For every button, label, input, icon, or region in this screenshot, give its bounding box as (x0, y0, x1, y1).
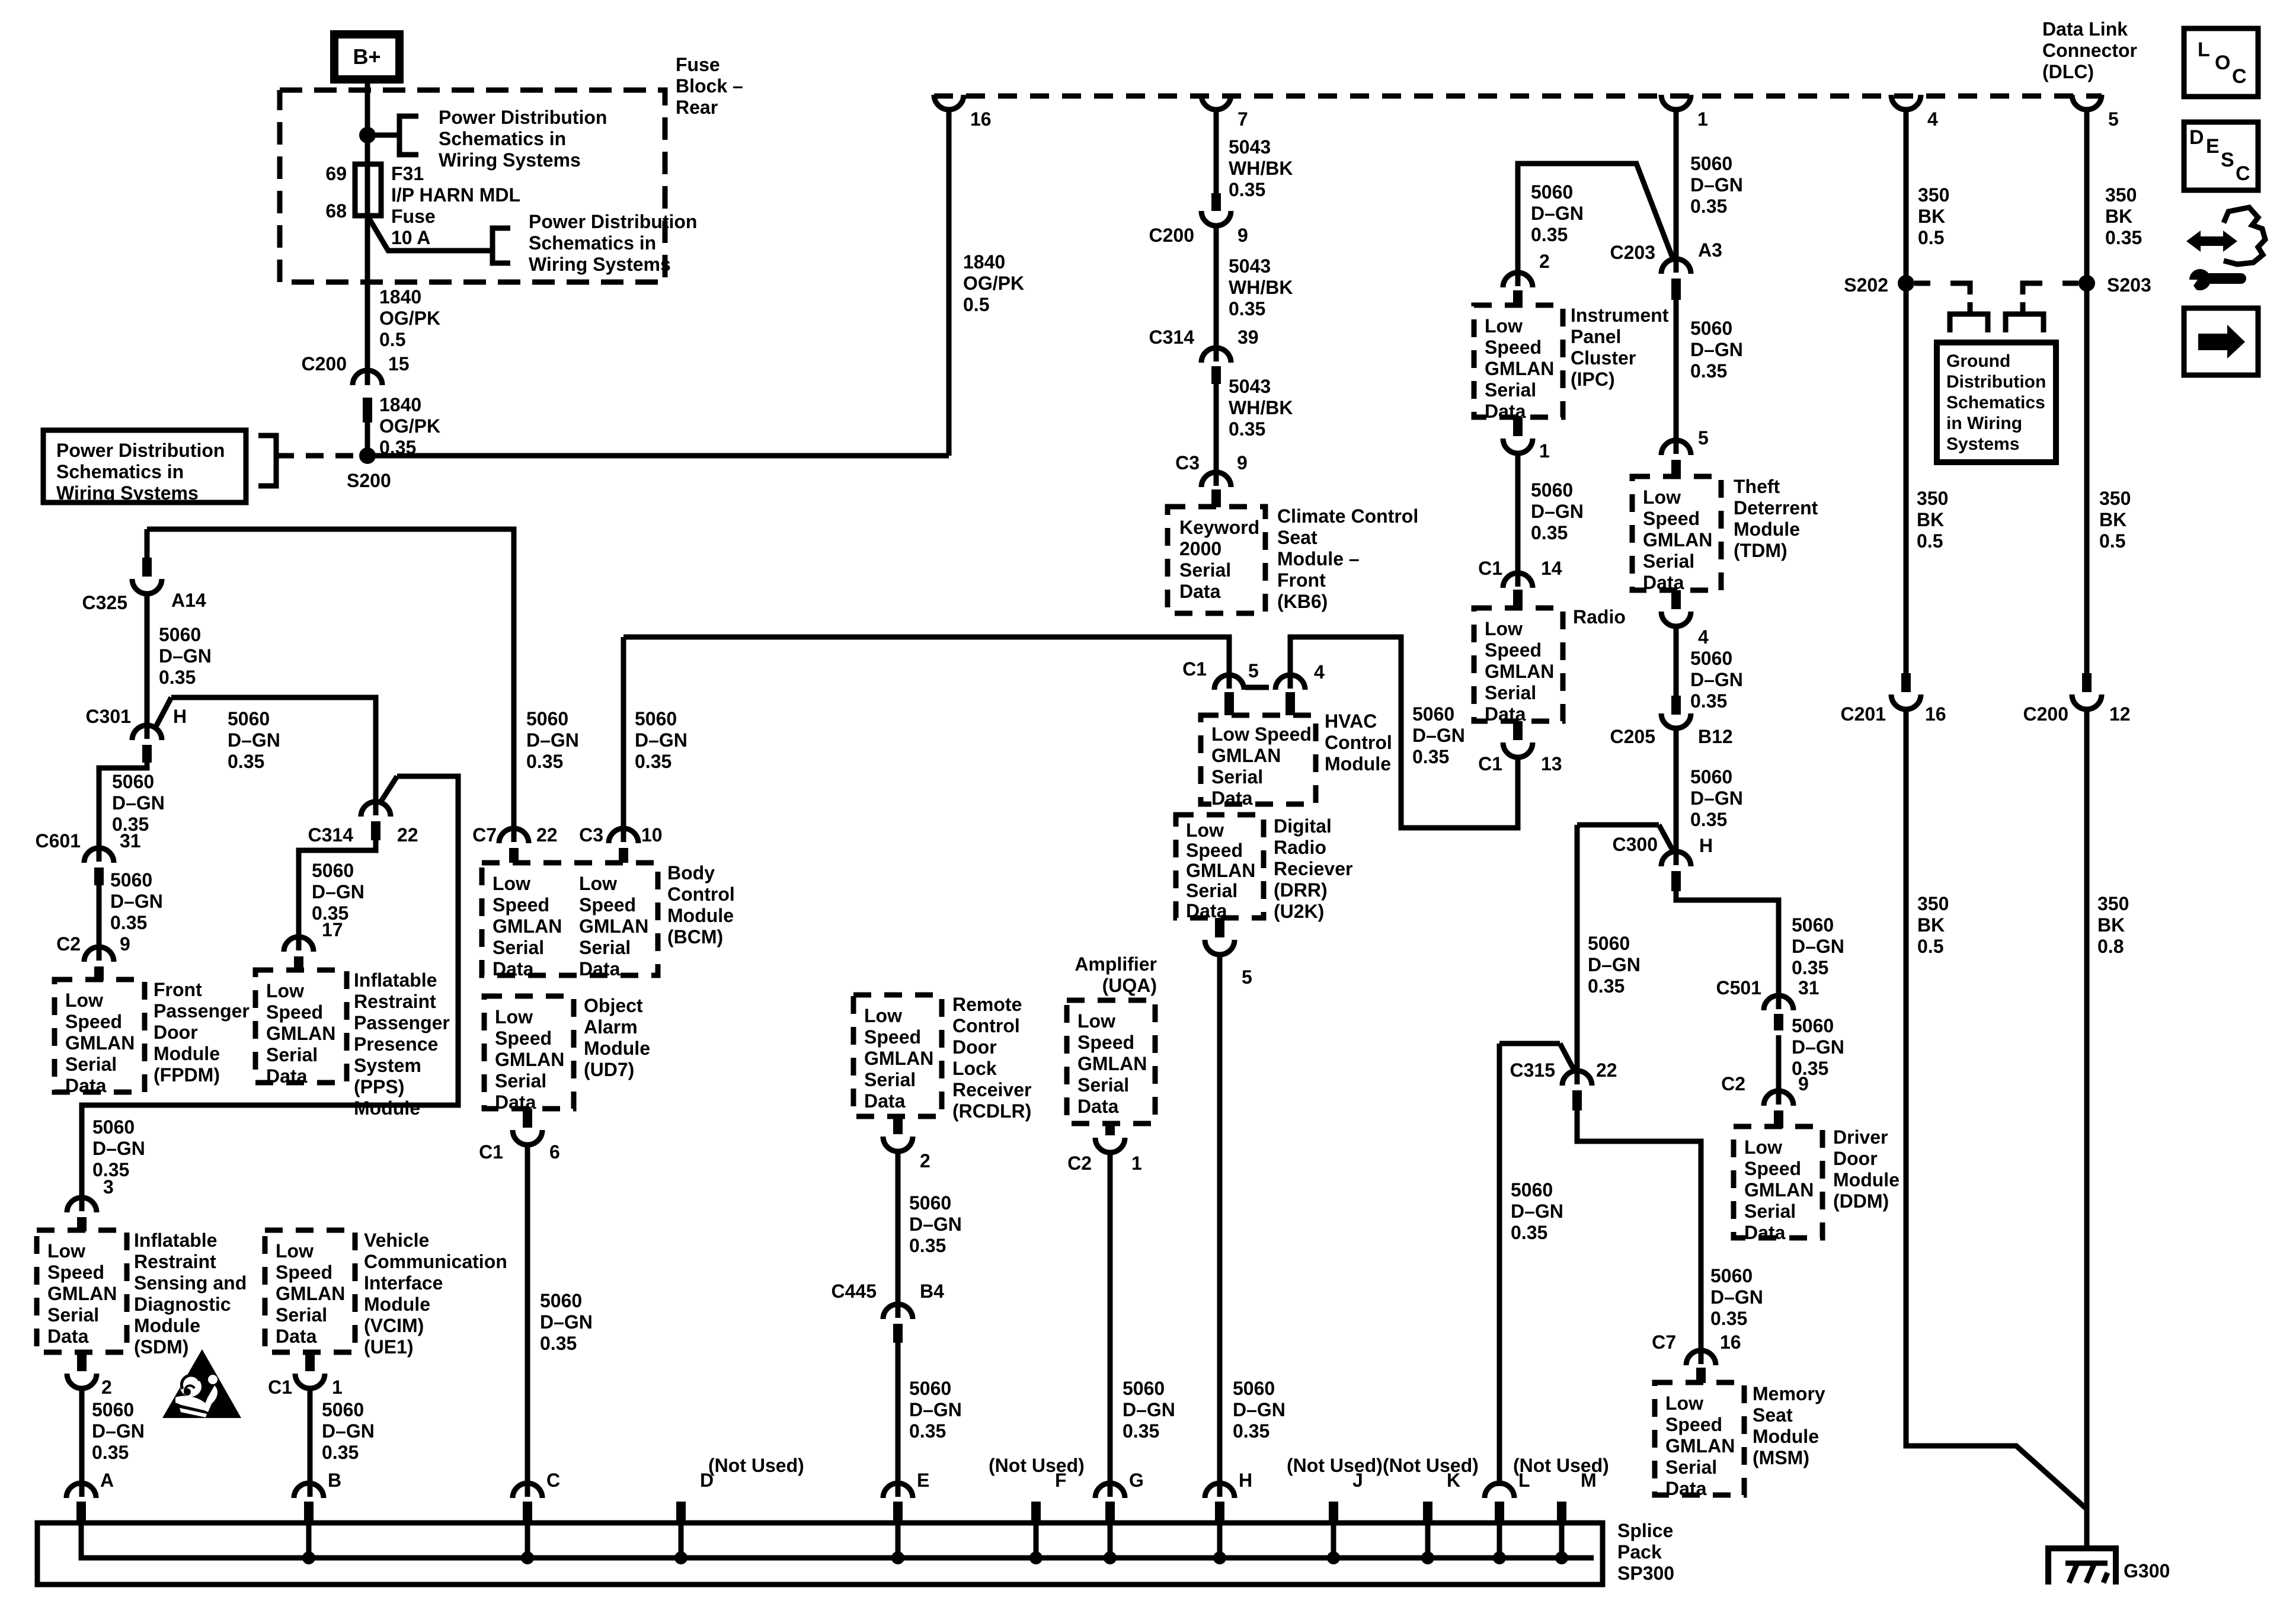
svg-text:(UD7): (UD7) (584, 1059, 634, 1080)
module passenger presence serial data (255, 970, 347, 1083)
svg-text:0.5: 0.5 (1917, 936, 1943, 957)
wire C601 to FPDM C2-9 (97, 885, 102, 961)
svg-text:Keyword: Keyword (1179, 517, 1259, 538)
svg-text:OG/PK: OG/PK (379, 415, 440, 437)
svg-text:Front: Front (154, 979, 202, 1000)
svg-text:Power Distribution: Power Distribution (529, 211, 697, 232)
svg-text:Schematics in: Schematics in (529, 232, 656, 254)
svg-text:in Wiring: in Wiring (1946, 414, 2022, 433)
junction dot fuse feed (359, 127, 376, 143)
svg-text:Data: Data (1211, 788, 1253, 809)
wire C501-31 to C2-9 DDM (1776, 1035, 1782, 1105)
svg-text:Reciever: Reciever (1274, 858, 1352, 879)
svg-text:Serial: Serial (493, 937, 544, 958)
svg-text:C1: C1 (268, 1377, 292, 1398)
svg-text:Vehicle: Vehicle (364, 1230, 429, 1251)
IPC pin 2 male pin (1513, 290, 1523, 305)
svg-text:5060: 5060 (909, 1192, 951, 1214)
svg-text:WH/BK: WH/BK (1229, 397, 1293, 418)
svg-text:O: O (2215, 52, 2230, 74)
legend icon pointing hand with arrows and wrench (2186, 207, 2265, 290)
svg-text:D–GN: D–GN (1690, 788, 1743, 809)
SDM pin 2 female arc (67, 1374, 97, 1388)
svg-text:5060: 5060 (312, 860, 354, 881)
svg-text:Serial: Serial (1485, 682, 1536, 703)
HVAC C1 pin 5 male pin (1224, 692, 1234, 715)
svg-text:2: 2 (101, 1377, 112, 1398)
bracket to ground distribution (right) (2006, 314, 2044, 332)
svg-text:68: 68 (325, 200, 347, 222)
wire S200 to DLC pin 16 drop (367, 453, 949, 459)
svg-text:Theft: Theft (1734, 476, 1780, 497)
svg-text:14: 14 (1541, 558, 1562, 579)
svg-text:Speed: Speed (1744, 1158, 1801, 1179)
connector C315 pin 22 female arc (1562, 1071, 1592, 1086)
svg-text:5060: 5060 (1233, 1378, 1275, 1399)
IPC pin 1 male pin (1513, 417, 1523, 436)
splice M male pin (1557, 1502, 1566, 1524)
svg-text:16: 16 (970, 108, 992, 130)
svg-text:Memory: Memory (1753, 1383, 1825, 1404)
wire B+ to fuse F31 (365, 79, 370, 164)
junction splice M (1555, 1551, 1568, 1564)
wire splice C to bus (525, 1524, 530, 1558)
svg-text:GMLAN: GMLAN (1643, 529, 1712, 550)
svg-text:(Not Used): (Not Used) (1287, 1455, 1383, 1476)
svg-text:2: 2 (1539, 251, 1550, 272)
svg-text:C7: C7 (472, 824, 497, 846)
svg-text:12: 12 (2109, 703, 2131, 725)
wire C315 splice horizontal (1499, 1041, 1560, 1046)
svg-text:Speed: Speed (266, 1001, 323, 1023)
wire splice D to bus (679, 1524, 684, 1558)
airbag SRS warning triangle (162, 1349, 241, 1418)
svg-text:1: 1 (1539, 440, 1550, 462)
svg-text:BK: BK (1918, 206, 1945, 227)
svg-text:5: 5 (1248, 660, 1259, 681)
svg-text:D–GN: D–GN (1690, 174, 1743, 196)
svg-text:C301: C301 (86, 706, 132, 727)
connector C601 pin 31 female arc (84, 848, 114, 863)
svg-text:Data: Data (47, 1326, 89, 1347)
svg-text:Door: Door (952, 1036, 997, 1058)
svg-text:(FPDM): (FPDM) (154, 1064, 220, 1086)
svg-text:Alarm: Alarm (584, 1016, 638, 1038)
module digital radio receiver serial data (1176, 815, 1264, 918)
svg-text:Seat: Seat (1753, 1404, 1793, 1426)
svg-text:0.5: 0.5 (963, 294, 989, 315)
battery B+ symbol (334, 34, 399, 79)
svg-text:5060: 5060 (1690, 648, 1732, 669)
svg-text:2: 2 (920, 1150, 930, 1172)
svg-text:D–GN: D–GN (312, 881, 364, 902)
svg-text:Module: Module (584, 1038, 650, 1059)
svg-text:D–GN: D–GN (1690, 339, 1743, 360)
svg-text:G300: G300 (2124, 1560, 2170, 1582)
splice A female arc (66, 1483, 96, 1498)
svg-text:0.5: 0.5 (1918, 227, 1944, 248)
RCDLR pin 2 male pin (893, 1116, 903, 1134)
module VCIM serial data (265, 1230, 355, 1352)
svg-text:(Not Used): (Not Used) (1513, 1455, 1609, 1476)
splice L female arc (1485, 1483, 1514, 1498)
svg-text:5060: 5060 (540, 1290, 582, 1311)
svg-text:C3: C3 (579, 824, 603, 846)
svg-text:D–GN: D–GN (526, 729, 579, 751)
wire DRR-5 to splice pack H (1217, 955, 1223, 1497)
svg-text:Low: Low (47, 1240, 85, 1262)
wire UD7 C1-6 to splice pack C (525, 1145, 530, 1497)
box power distribution schematics in wiring systems (43, 430, 246, 502)
svg-text:S200: S200 (347, 470, 391, 491)
svg-text:D–GN: D–GN (1531, 501, 1584, 522)
svg-text:5060: 5060 (228, 708, 270, 729)
junction splice F (1029, 1551, 1043, 1564)
IPC pin 1 female arc (1503, 438, 1533, 453)
splice F male pin (1031, 1502, 1041, 1524)
svg-text:GMLAN: GMLAN (1186, 860, 1255, 881)
amplifier C2 pin 1 male pin (1105, 1124, 1115, 1135)
splice S200 (359, 447, 376, 464)
svg-text:A: A (100, 1470, 114, 1491)
svg-text:(BCM): (BCM) (667, 926, 723, 948)
svg-text:Speed: Speed (864, 1026, 921, 1048)
svg-text:Climate Control: Climate Control (1277, 505, 1418, 527)
svg-text:(RCDLR): (RCDLR) (952, 1100, 1031, 1122)
svg-text:Communication: Communication (364, 1251, 507, 1272)
svg-text:1840: 1840 (379, 394, 421, 415)
svg-text:B: B (328, 1470, 341, 1491)
svg-text:5060: 5060 (1792, 1015, 1834, 1036)
wire C314-39 to C3-9 (1214, 384, 1219, 486)
svg-text:5043: 5043 (1229, 376, 1271, 397)
wire splice H to bus (1217, 1524, 1223, 1558)
svg-text:Door: Door (1833, 1148, 1878, 1169)
svg-text:69: 69 (325, 163, 347, 184)
svg-text:Data: Data (493, 958, 534, 980)
wire C315-22 to MSM C7-16 (1577, 1110, 1701, 1364)
svg-text:Serial: Serial (1077, 1074, 1129, 1096)
callout bracket power distribution (top) (399, 116, 418, 155)
module SDM serial data (37, 1230, 127, 1352)
DLC pin 1 female arc (1661, 95, 1691, 110)
svg-text:Serial: Serial (266, 1044, 318, 1065)
splice G male pin (1105, 1502, 1115, 1524)
MSM C7 pin 16 female arc (1686, 1350, 1716, 1365)
wire C325 net to BCM C7-22 (147, 529, 514, 842)
splice S203 (2078, 275, 2095, 292)
junction splice B (302, 1551, 315, 1564)
svg-text:S: S (2221, 149, 2234, 171)
module memory seat serial data (1655, 1382, 1744, 1495)
svg-text:5060: 5060 (1511, 1179, 1553, 1201)
wire splice B to bus (306, 1524, 312, 1558)
svg-text:Speed: Speed (495, 1028, 552, 1049)
wire DLC pin 7 down (1214, 110, 1219, 194)
svg-text:Digital: Digital (1274, 815, 1332, 837)
svg-text:Data: Data (579, 958, 621, 980)
svg-text:Power Distribution: Power Distribution (439, 107, 607, 128)
svg-text:0.35: 0.35 (1412, 746, 1449, 767)
svg-text:C501: C501 (1716, 977, 1762, 998)
HVAC pin 4 female arc (1275, 675, 1305, 690)
svg-text:D–GN: D–GN (635, 729, 687, 751)
svg-text:5: 5 (2108, 108, 2119, 130)
TDM pin 5 male pin (1671, 460, 1681, 478)
svg-text:Control: Control (952, 1015, 1020, 1036)
svg-text:GMLAN: GMLAN (1485, 661, 1554, 682)
svg-text:Data: Data (266, 1065, 308, 1087)
svg-text:5: 5 (1242, 966, 1252, 988)
svg-text:0.35: 0.35 (1690, 360, 1727, 382)
svg-text:0.35: 0.35 (228, 751, 264, 772)
svg-text:Serial: Serial (1211, 766, 1263, 788)
svg-text:Remote: Remote (952, 994, 1022, 1015)
svg-text:22: 22 (397, 824, 418, 846)
connector C300 pin H female arc (1661, 852, 1691, 866)
svg-text:Cluster: Cluster (1571, 347, 1636, 369)
svg-text:C314: C314 (308, 824, 354, 846)
splice L male pin (1495, 1502, 1504, 1524)
svg-text:Radio: Radio (1573, 606, 1626, 628)
svg-text:C205: C205 (1610, 726, 1656, 747)
svg-text:GMLAN: GMLAN (266, 1023, 335, 1044)
svg-text:Data: Data (65, 1075, 107, 1096)
wire C201-16 to G300 (1906, 709, 2086, 1508)
svg-text:39: 39 (1237, 327, 1259, 348)
connector C301 pin H male pin (142, 745, 152, 763)
svg-text:1: 1 (332, 1377, 343, 1398)
wire C200-12 to G300 (2084, 709, 2090, 1548)
TDM pin 4 male pin (1671, 590, 1681, 609)
svg-text:D–GN: D–GN (1511, 1201, 1563, 1222)
connector C201 pin 16 female arc (1891, 694, 1921, 709)
wire C301 splice to C314-22 (171, 697, 376, 815)
wire C200-9 to C314-39 (1214, 226, 1219, 361)
svg-text:Passenger: Passenger (154, 1000, 250, 1022)
connector C314 pin 22 female arc (361, 802, 391, 817)
svg-text:0.35: 0.35 (1229, 298, 1265, 319)
svg-text:BK: BK (2099, 509, 2126, 530)
svg-text:0.35: 0.35 (909, 1420, 946, 1442)
svg-text:5060: 5060 (1531, 181, 1573, 203)
wire C205-B12 to C300-H (1674, 728, 1679, 865)
svg-text:Module: Module (154, 1043, 220, 1064)
svg-text:0.35: 0.35 (110, 912, 147, 933)
svg-text:5060: 5060 (1690, 318, 1732, 339)
wire DLC pin 16 to S200 net (946, 111, 952, 456)
DRR pin 5 female arc (1205, 940, 1235, 955)
svg-text:C3: C3 (1175, 452, 1200, 473)
svg-text:GMLAN: GMLAN (1744, 1179, 1814, 1201)
wire C203-A3 to TDM pin 5 (1674, 300, 1679, 454)
svg-text:(DDM): (DDM) (1833, 1190, 1889, 1212)
svg-text:B12: B12 (1698, 726, 1733, 747)
svg-text:H: H (1239, 1470, 1252, 1491)
splice D male pin (676, 1502, 686, 1524)
splice E male pin (893, 1502, 903, 1524)
svg-text:0.35: 0.35 (1710, 1308, 1747, 1329)
svg-text:C315: C315 (1510, 1060, 1556, 1081)
connector C601 pin 31 male pin (94, 868, 104, 885)
connector C200 pin 12 female arc (2072, 694, 2102, 709)
splice H male pin (1215, 1502, 1224, 1524)
svg-text:C7: C7 (1652, 1331, 1676, 1353)
svg-text:0.35: 0.35 (1123, 1420, 1159, 1442)
svg-text:C300: C300 (1613, 834, 1658, 855)
svg-text:5060: 5060 (635, 708, 677, 729)
svg-text:0.35: 0.35 (1792, 1058, 1828, 1079)
svg-text:Data: Data (1179, 581, 1221, 602)
connector C501 pin 31 male pin (1774, 1014, 1783, 1030)
svg-text:C445: C445 (832, 1281, 877, 1302)
DLC pin 5 female arc (2072, 95, 2102, 110)
svg-text:(Not Used): (Not Used) (989, 1455, 1085, 1476)
svg-text:Schematics: Schematics (1946, 393, 2045, 412)
splice pack SP300 outer box (37, 1523, 1603, 1585)
svg-text:5060: 5060 (110, 869, 152, 891)
svg-text:4: 4 (1698, 626, 1709, 648)
legend icon DESC (2184, 122, 2258, 190)
BCM C7 pin 22 female arc (499, 828, 529, 843)
svg-text:22: 22 (536, 824, 558, 846)
svg-text:Pack: Pack (1617, 1541, 1662, 1563)
svg-text:350: 350 (2099, 488, 2131, 509)
svg-text:Body: Body (667, 862, 715, 884)
splice B female arc (294, 1483, 324, 1498)
svg-text:Serial: Serial (1485, 379, 1536, 401)
splice A male pin (76, 1502, 86, 1524)
svg-text:Diagnostic: Diagnostic (134, 1294, 231, 1315)
wire C200-15 to S200 (365, 422, 370, 452)
svg-text:L: L (2198, 39, 2210, 61)
svg-text:OG/PK: OG/PK (379, 308, 440, 329)
svg-text:Inflatable: Inflatable (134, 1230, 217, 1251)
connector C200 pin 9 male pin (1211, 193, 1221, 211)
svg-text:Serial: Serial (1186, 880, 1237, 901)
svg-text:I/P HARN MDL: I/P HARN MDL (391, 184, 520, 206)
svg-text:D–GN: D–GN (159, 645, 212, 667)
svg-text:1: 1 (1697, 108, 1708, 130)
svg-text:Lock: Lock (952, 1058, 997, 1079)
svg-text:4: 4 (1927, 108, 1938, 130)
connector C200 pin 9 female arc (1201, 211, 1231, 226)
svg-text:GMLAN: GMLAN (1665, 1435, 1735, 1457)
wire C314-22 to PPS pin 17 (299, 840, 376, 950)
wire splice J to bus (1331, 1524, 1336, 1558)
svg-text:Rear: Rear (676, 97, 718, 118)
svg-text:(DLC): (DLC) (2042, 61, 2094, 82)
connector C301 pin H female arc (132, 725, 162, 740)
wire SDM-2 to splice pack A (79, 1388, 85, 1497)
IPC pin 2 female arc (1503, 273, 1533, 287)
svg-text:OG/PK: OG/PK (963, 273, 1024, 294)
svg-text:0.35: 0.35 (1233, 1420, 1269, 1442)
svg-text:S202: S202 (1844, 274, 1888, 296)
callout bracket power distribution (S200) (258, 436, 276, 486)
svg-text:C200: C200 (2023, 703, 2069, 725)
SDM pin 3 male pin (77, 1217, 87, 1231)
svg-text:Restraint: Restraint (134, 1251, 216, 1272)
radio C1 pin 14 female arc (1503, 573, 1533, 588)
svg-text:0.35: 0.35 (1229, 418, 1265, 440)
svg-text:Driver: Driver (1833, 1126, 1888, 1148)
wire splice E to bus (896, 1524, 901, 1558)
svg-text:7: 7 (1237, 108, 1248, 130)
svg-text:1: 1 (1131, 1153, 1142, 1174)
svg-text:D–GN: D–GN (1690, 669, 1743, 690)
radio C1 pin 14 male pin (1513, 590, 1523, 606)
svg-text:Low: Low (495, 1006, 533, 1028)
svg-text:5060: 5060 (1710, 1265, 1753, 1286)
svg-text:C200: C200 (302, 353, 347, 375)
svg-text:9: 9 (1237, 452, 1248, 473)
connector C315 pin 22 male pin (1572, 1090, 1582, 1110)
svg-text:Receiver: Receiver (952, 1079, 1031, 1100)
RCDLR pin 2 female arc (883, 1137, 913, 1151)
wire TDM-4 to C205 (1674, 626, 1679, 696)
junction splice K (1421, 1551, 1434, 1564)
svg-text:6: 6 (549, 1141, 560, 1163)
svg-text:BK: BK (2105, 206, 2132, 227)
svg-text:Control: Control (1325, 732, 1392, 753)
svg-text:D–GN: D–GN (909, 1399, 962, 1420)
svg-text:5: 5 (1698, 427, 1709, 449)
svg-text:Low: Low (1077, 1010, 1115, 1032)
object alarm C1 pin 6 female arc (513, 1130, 542, 1145)
module RCDLR serial data (853, 995, 942, 1116)
svg-text:0.35: 0.35 (1690, 690, 1727, 712)
DLC pin 7 female arc (1201, 95, 1231, 110)
svg-text:B+: B+ (353, 44, 380, 69)
VCIM C1 pin 1 male pin (305, 1352, 315, 1371)
svg-text:16: 16 (1925, 703, 1946, 725)
splice S202 (1898, 275, 1914, 292)
svg-text:0.35: 0.35 (635, 751, 671, 772)
svg-text:(SDM): (SDM) (134, 1336, 188, 1358)
svg-text:5060: 5060 (1792, 914, 1834, 936)
svg-text:D–GN: D–GN (112, 792, 165, 814)
svg-text:0.5: 0.5 (379, 329, 405, 350)
svg-text:0.35: 0.35 (1690, 809, 1727, 830)
svg-text:17: 17 (322, 919, 343, 940)
connector C3 pin 9 male pin (1211, 489, 1221, 507)
module theft deterrent serial data (1632, 476, 1721, 590)
svg-text:0.35: 0.35 (159, 667, 196, 688)
svg-text:(MSM): (MSM) (1753, 1447, 1809, 1468)
svg-text:Schematics in: Schematics in (56, 461, 184, 482)
svg-text:D–GN: D–GN (322, 1420, 375, 1442)
svg-text:2000: 2000 (1179, 538, 1221, 559)
svg-text:5060: 5060 (159, 624, 201, 645)
dashed hook S203 segment a (2062, 281, 2078, 286)
MSM C7 pin 16 male pin (1696, 1368, 1706, 1383)
FPDM C2 pin 9 male pin (94, 966, 104, 981)
object alarm C1 pin 6 male pin (523, 1109, 532, 1128)
svg-text:BK: BK (1917, 509, 1944, 530)
connector C325 pin A14 male pin (142, 558, 152, 577)
svg-text:Wiring Systems: Wiring Systems (529, 254, 671, 275)
wire splice M to bus (1559, 1524, 1565, 1558)
svg-text:Low: Low (1485, 618, 1523, 639)
svg-text:Speed: Speed (1186, 840, 1243, 861)
svg-text:C: C (2232, 65, 2247, 88)
wire DLC pin 4 down (1904, 111, 1909, 673)
svg-text:0.35: 0.35 (322, 1442, 359, 1463)
svg-text:H: H (1699, 835, 1713, 856)
svg-text:Low: Low (864, 1005, 902, 1026)
svg-text:GMLAN: GMLAN (1077, 1053, 1147, 1074)
